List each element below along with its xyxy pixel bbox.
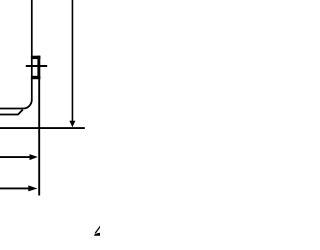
component F1 bracket right bar: [37, 56, 40, 79]
reference numeral 4 (clipped at right edge): diagonal stroke: [95, 226, 101, 234]
component F1 bracket bottom bar: [31, 76, 40, 79]
arrow 2 shaft: [0, 187, 29, 189]
arrow 1 shaft: [0, 156, 30, 158]
lead line B vertical: [71, 0, 73, 122]
wire lower converging: [0, 110, 23, 115]
arrowhead down: [69, 121, 75, 127]
wire A vertical from top: [31, 0, 33, 100]
arrow 2 head: [28, 185, 37, 191]
component F1 bracket top bar: [31, 56, 41, 59]
wire horizontal left: [0, 108, 23, 110]
wire C vertical: [38, 79, 40, 196]
arrow 1 head: [30, 154, 38, 160]
bus horizontal line: [0, 127, 85, 129]
reference numeral 4: base bar / serif foot: [94, 233, 100, 236]
wire A corner arc: [23, 100, 32, 109]
crossing tick line: [26, 65, 47, 67]
